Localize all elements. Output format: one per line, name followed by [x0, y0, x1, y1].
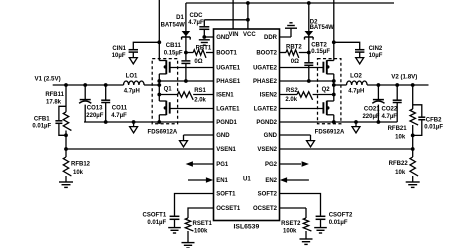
wire EN2 with arrow	[280, 177, 309, 183]
svg-text:4.7µH: 4.7µH	[348, 88, 364, 94]
ground below CSOFT2	[314, 228, 327, 233]
capacitor CSOFT1 0.01uF	[143, 213, 180, 226]
node CO22 tap	[395, 83, 399, 87]
wire EN1 with arrow	[188, 177, 213, 183]
wire CO22	[396, 85, 398, 122]
capacitor CB11 0.15uF	[164, 43, 191, 63]
svg-text:GND: GND	[264, 133, 278, 139]
svg-text:LGATE2: LGATE2	[254, 107, 278, 113]
svg-text:CO22: CO22	[382, 107, 398, 113]
svg-text:4.7µF: 4.7µF	[111, 113, 127, 119]
resistor RFB12 10k	[63, 149, 90, 182]
wire RFB21 top	[412, 85, 414, 109]
svg-text:BAT54W: BAT54W	[161, 23, 186, 29]
resistor RSET1 100k	[185, 218, 212, 235]
wire VSEN2	[280, 148, 413, 150]
capacitor CO22 4.7uF	[382, 100, 402, 120]
ground below CSOFT1	[168, 228, 181, 233]
wire VCC vertical into pin VCC	[247, 3, 249, 29]
node D1/CB11/RBT1 junction	[184, 51, 188, 55]
wire PHASE2	[280, 79, 336, 83]
wire RSET2 bottom	[305, 231, 307, 239]
wire Q1 source to PGND bus	[157, 115, 161, 124]
resistor RFB22 10k	[389, 149, 418, 182]
svg-text:FDS6912A: FDS6912A	[315, 130, 345, 136]
svg-text:CO13: CO13	[87, 106, 103, 112]
wire PGND2 bus	[280, 121, 398, 123]
svg-text:LO1: LO1	[126, 73, 138, 79]
svg-text:RS1: RS1	[194, 88, 206, 94]
power ground arrow on PGND1 bus	[130, 120, 138, 133]
svg-text:ISEN1: ISEN1	[216, 93, 234, 99]
wire VCC rail to D2 node	[308, 3, 310, 53]
wire PG2 with arrow	[280, 161, 309, 167]
node CO11 tap	[104, 83, 108, 87]
dashed package outline FDS6912A no.2	[318, 59, 341, 124]
wire LGATE2	[280, 108, 324, 110]
svg-text:CDC: CDC	[190, 13, 204, 19]
node RFB11 tap	[64, 83, 68, 87]
svg-text:CFB2: CFB2	[426, 117, 442, 123]
svg-text:10µF: 10µF	[369, 53, 383, 59]
svg-text:RFB21: RFB21	[388, 126, 408, 132]
wire VCC rail to D1 node	[185, 3, 187, 53]
capacitor CDC	[188, 13, 209, 29]
svg-text:17.8k: 17.8k	[46, 99, 62, 105]
power ground arrow below CIN1	[129, 58, 137, 64]
wire CSOFT2 bottom	[320, 219, 322, 227]
svg-text:10k: 10k	[395, 170, 406, 176]
op-amp U1 controller IC ISL6539 body	[214, 29, 280, 221]
svg-text:BOOT1: BOOT1	[216, 51, 237, 57]
wire OCSET2 to RSET2	[280, 208, 307, 218]
wire LGATE1	[170, 108, 214, 110]
svg-text:0Ω: 0Ω	[194, 59, 202, 65]
svg-text:RFB11: RFB11	[45, 92, 64, 98]
svg-text:0.01µF: 0.01µF	[329, 220, 348, 226]
wire CDC vertical	[203, 20, 205, 37]
capacitor CIN2 10uF	[355, 46, 383, 59]
wire GND pin 1 to CDC node	[202, 35, 213, 39]
diode D2 BAT54W	[305, 20, 335, 40]
svg-text:RFB12: RFB12	[71, 161, 91, 167]
wire RFB11 bottom to VSEN1	[64, 131, 68, 151]
svg-text:UGATE1: UGATE1	[216, 66, 241, 72]
wire CFB1 branch	[59, 106, 66, 135]
wire LO1 to phase node	[144, 83, 161, 87]
svg-text:VCC: VCC	[243, 32, 256, 38]
wire RFB21 bottom to VSEN2	[411, 125, 415, 151]
svg-text:SOFT1: SOFT1	[216, 192, 236, 198]
wire CIN2 to ground	[359, 52, 361, 58]
wire RS2 net ISEN2	[280, 93, 336, 97]
capacitor CSOFT2 0.01uF	[316, 213, 353, 226]
transistor Q1 lower MOSFET	[159, 101, 169, 115]
capacitor CO13 220uF	[79, 100, 104, 119]
capacitor CFB2 0.01uF	[418, 117, 443, 130]
inductor LO1 4.7uH	[124, 73, 145, 94]
svg-text:Q1: Q1	[164, 86, 173, 92]
capacitor CO21 220uF	[362, 100, 384, 120]
svg-text:BOOT2: BOOT2	[256, 51, 277, 57]
svg-text:0.01µF: 0.01µF	[32, 123, 51, 129]
svg-text:PHASE2: PHASE2	[253, 79, 278, 85]
node CIN2 tap	[332, 40, 336, 44]
capacitor CBT2 0.15uF	[304, 43, 330, 66]
svg-text:CIN1: CIN1	[112, 46, 126, 52]
svg-text:220µF: 220µF	[362, 114, 379, 120]
wire CO11	[104, 85, 108, 124]
wire VIN drain column Q1	[158, 0, 160, 61]
svg-text:4.7µF: 4.7µF	[382, 114, 398, 120]
label V2 (1.8V)	[391, 74, 417, 81]
svg-text:CBT2: CBT2	[311, 43, 327, 49]
svg-text:D1: D1	[176, 15, 184, 21]
svg-text:10µF: 10µF	[112, 53, 126, 59]
svg-text:PGND2: PGND2	[256, 120, 277, 126]
svg-text:220µF: 220µF	[86, 113, 103, 119]
node CO21 tap	[377, 83, 381, 87]
wire V1 output rail	[53, 84, 124, 86]
power ground arrow on PGND2 bus	[352, 120, 360, 133]
wire CDC to VCC	[204, 18, 250, 22]
svg-text:4.7µF: 4.7µF	[188, 20, 204, 26]
label V1 (2.5V)	[35, 76, 61, 83]
resistor RS2 2.0k	[285, 88, 312, 103]
power ground arrow below CIN2	[356, 58, 364, 64]
wire SOFT1 to CSOFT1	[175, 194, 214, 216]
wire VIN vertical into pin VIN	[232, 0, 234, 29]
svg-text:VIN: VIN	[229, 32, 239, 38]
svg-text:0Ω: 0Ω	[291, 59, 299, 65]
wire DDR to ground	[280, 28, 292, 37]
transistor Q2 upper MOSFET	[323, 60, 333, 74]
wire CB11 bottom to PHASE1	[184, 63, 188, 83]
capacitor CO11 4.7uF	[101, 100, 128, 119]
svg-text:10k: 10k	[73, 170, 84, 176]
label Q2	[322, 87, 331, 93]
wire RFB11 top	[65, 85, 67, 112]
svg-text:V2 (1.8V): V2 (1.8V)	[391, 74, 417, 81]
svg-text:0.01µF: 0.01µF	[424, 125, 443, 131]
svg-text:FDS6912A: FDS6912A	[148, 130, 178, 136]
resistor RFB11 17.8k	[45, 92, 71, 131]
label Q1	[164, 86, 173, 92]
svg-text:100k: 100k	[194, 229, 208, 235]
wire CB11 top	[185, 53, 187, 61]
svg-text:LGATE1: LGATE1	[216, 107, 240, 113]
svg-text:RSET2: RSET2	[281, 221, 301, 227]
svg-text:PHASE1: PHASE1	[216, 79, 241, 85]
capacitor CFB1 0.01uF	[32, 117, 62, 130]
transistor Q1 upper MOSFET	[159, 60, 169, 74]
node CIN1 tap	[157, 40, 161, 44]
capacitor CIN1 10uF	[112, 46, 138, 59]
wire CSOFT1 bottom	[174, 219, 176, 227]
svg-text:EN2: EN2	[265, 178, 277, 184]
wire CO21	[377, 85, 381, 124]
svg-text:RS2: RS2	[286, 88, 298, 94]
svg-text:GND: GND	[216, 35, 230, 41]
flipped ground at DDR	[285, 23, 297, 28]
wire phase column Q1	[158, 74, 160, 101]
wire UGATE1	[170, 67, 214, 69]
svg-text:PGND1: PGND1	[216, 120, 237, 126]
svg-text:10k: 10k	[395, 134, 406, 140]
wire UGATE2	[280, 67, 324, 69]
wire RSET1 bottom	[187, 231, 189, 243]
svg-text:0.15µF: 0.15µF	[164, 51, 183, 57]
wire PG1 with arrow	[186, 161, 214, 167]
wire GND pin right	[280, 135, 311, 141]
svg-text:LO2: LO2	[350, 73, 362, 79]
svg-text:RBT2: RBT2	[286, 45, 302, 51]
svg-text:RBT1: RBT1	[196, 45, 212, 51]
wire PHASE1	[157, 79, 213, 83]
svg-text:2.0k: 2.0k	[194, 97, 206, 103]
svg-text:PG2: PG2	[265, 162, 278, 168]
resistor RBT2 0 ohm	[280, 45, 309, 65]
wire RS1 net ISEN1	[157, 93, 213, 97]
svg-text:VSEN2: VSEN2	[257, 147, 277, 153]
wire VSEN1	[66, 148, 214, 150]
U1 pin name labels	[216, 32, 277, 212]
node RFB21 tap	[411, 83, 415, 87]
svg-text:DDR: DDR	[264, 35, 278, 41]
svg-text:ISL6539: ISL6539	[234, 223, 260, 230]
svg-text:EN1: EN1	[216, 178, 228, 184]
wire CO13	[84, 85, 86, 122]
wire Q2 source to PGND bus	[332, 115, 336, 124]
svg-text:BAT54W: BAT54W	[310, 25, 335, 31]
wire CBT2 bottom to PHASE2	[307, 65, 311, 83]
svg-text:RSET1: RSET1	[193, 221, 213, 227]
svg-text:CFB1: CFB1	[34, 117, 50, 123]
wire CIN1 to ground	[132, 52, 134, 58]
svg-text:CO11: CO11	[112, 106, 128, 112]
svg-text:ISEN2: ISEN2	[260, 93, 278, 99]
label FDS6912A no.2	[315, 130, 345, 136]
resistor RSET2 100k	[281, 218, 311, 235]
diode D1 BAT54W	[161, 15, 191, 39]
svg-text:Q2: Q2	[322, 87, 331, 93]
svg-text:U1: U1	[243, 177, 251, 183]
svg-text:CB11: CB11	[166, 43, 182, 49]
ground below RFB12	[59, 182, 73, 187]
wire phase column Q2	[333, 74, 335, 101]
power ground arrow at GND pin 8	[180, 141, 188, 147]
transistor Q2 lower MOSFET	[323, 101, 333, 115]
wire VCC rail	[186, 1, 394, 5]
svg-text:CSOFT1: CSOFT1	[143, 213, 167, 219]
svg-text:CO21: CO21	[364, 107, 380, 113]
svg-text:RFB22: RFB22	[389, 161, 409, 167]
ground below RFB22	[406, 182, 420, 187]
resistor RBT1 0 ohm	[186, 45, 214, 65]
svg-text:4.7µH: 4.7µH	[124, 88, 140, 94]
svg-text:VSEN1: VSEN1	[216, 147, 236, 153]
wire CIN1 branch	[133, 42, 159, 49]
wire V2 output rail	[367, 84, 428, 86]
label FDS6912A no.1	[148, 130, 178, 136]
U1 part number label ISL6539	[234, 223, 260, 230]
wire GND pin 8 left	[184, 135, 214, 141]
svg-text:2.0k: 2.0k	[285, 97, 297, 103]
wire VIN drain column Q2	[333, 0, 335, 61]
node D2/CBT2/RBT2 junction	[307, 51, 311, 55]
wire CBT2 top	[308, 53, 310, 63]
wire PGND1 bus	[84, 121, 214, 123]
svg-text:OCSET2: OCSET2	[253, 206, 278, 212]
wire OCSET1 to RSET1	[188, 208, 214, 218]
resistor RS1 2.0k	[178, 88, 207, 103]
wire CFB2 branch	[413, 105, 422, 136]
power ground arrow at right GND pin	[307, 141, 315, 147]
wire CIN2 branch	[334, 42, 360, 49]
svg-text:OCSET1: OCSET1	[216, 206, 241, 212]
wire SOFT2 to CSOFT2	[280, 194, 321, 216]
svg-text:SOFT2: SOFT2	[258, 192, 278, 198]
svg-text:V1 (2.5V): V1 (2.5V)	[35, 76, 61, 83]
svg-text:GND: GND	[216, 133, 230, 139]
svg-text:0.01µF: 0.01µF	[147, 220, 166, 226]
inductor LO2 4.7uH	[332, 73, 367, 94]
svg-text:UGATE2: UGATE2	[253, 66, 278, 72]
resistor RFB21 10k	[388, 109, 419, 140]
svg-text:CSOFT2: CSOFT2	[329, 213, 353, 219]
ground below RSET2	[300, 239, 313, 244]
svg-text:100k: 100k	[283, 229, 297, 235]
svg-text:CIN2: CIN2	[369, 46, 383, 52]
ground below RSET1	[182, 243, 195, 248]
svg-text:PG1: PG1	[216, 162, 229, 168]
node CO13 tap	[83, 83, 87, 87]
dashed package outline FDS6912A no.1	[152, 59, 177, 124]
svg-text:0.15µF: 0.15µF	[311, 49, 330, 55]
ground at CDC	[199, 40, 210, 45]
